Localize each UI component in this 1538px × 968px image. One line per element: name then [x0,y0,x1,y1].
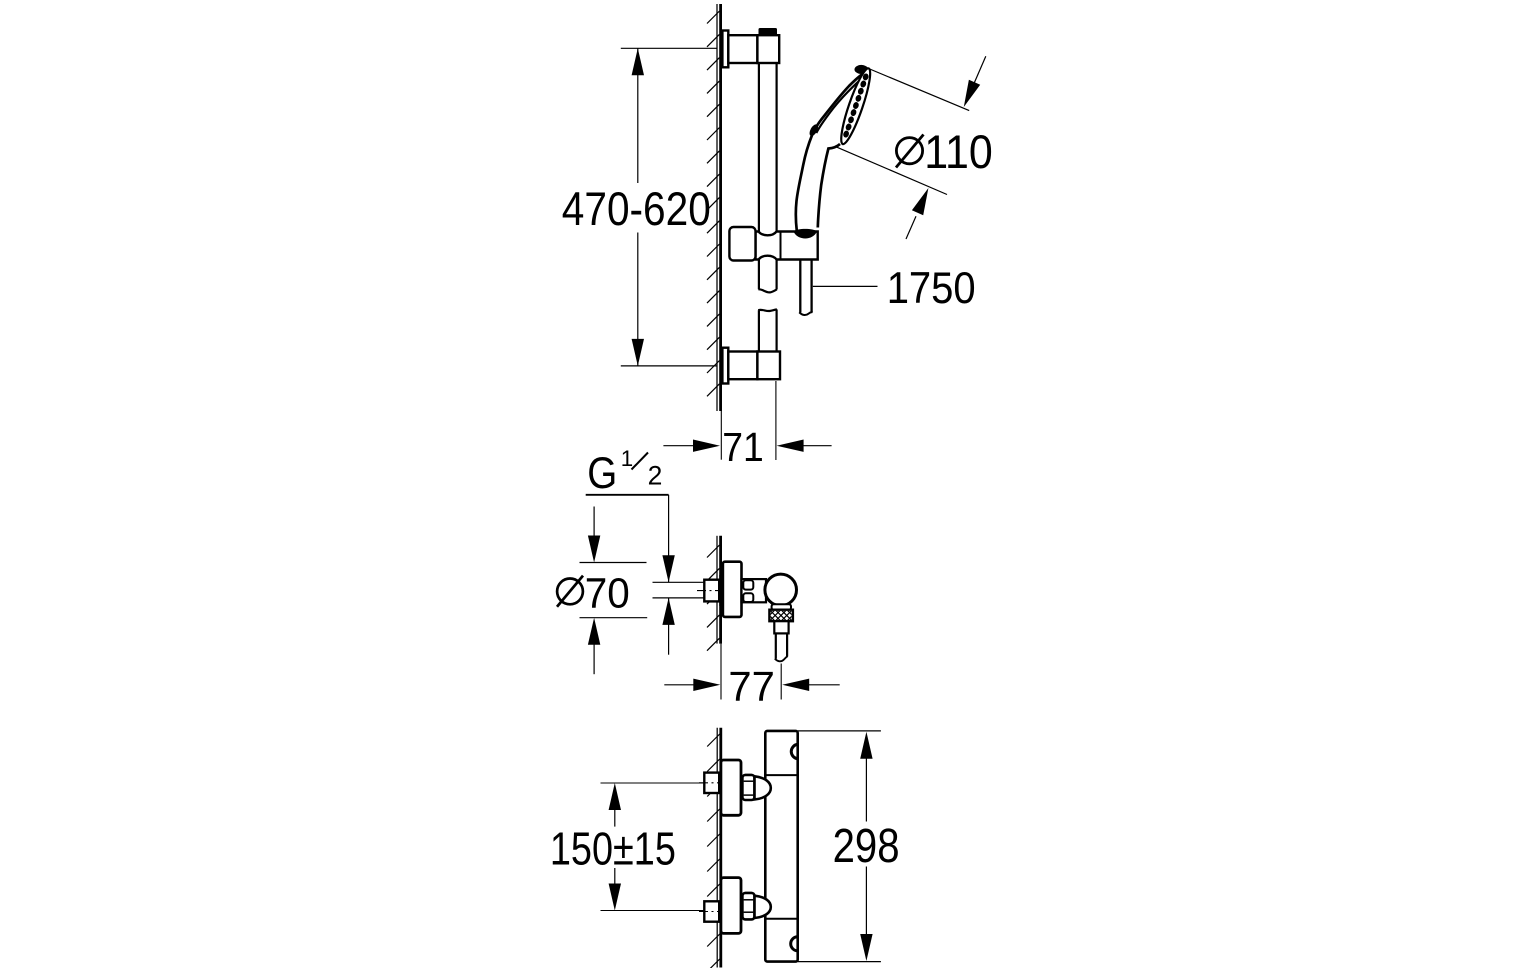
extension line (body bottom) [798,961,881,963]
union nut ridge (lower) [743,593,753,602]
lower union nut line 2 [744,911,754,913]
dimension 71 left arrow line [663,445,699,447]
lower union flange [721,878,741,934]
hand shower back outline and handle left edge [796,70,869,231]
svg-text:2: 2 [648,460,663,490]
dimension line 150 (lower) [614,868,616,884]
dimension 77 left arrow line [664,684,700,686]
lower bracket rail clamp [757,352,780,380]
wall hatching (top section) [707,11,720,396]
ball joint [765,574,797,606]
upper union threaded tail [704,773,719,793]
wall (bottom section, surface line) [719,728,722,968]
arrowhead left (71) [777,440,804,452]
dimension line 470-620 (lower part) [637,233,639,366]
upper bracket rail clamp [757,35,779,63]
hose right edge (outlet) [786,633,788,656]
wall (top section, inner thin line) [716,4,718,411]
shower hose right edge [810,259,812,313]
extension line (wall face, below rail) [720,411,722,460]
rail right edge (lower segment) [775,309,777,351]
volume knob arc (bottom) [791,937,798,951]
svg-text:70: 70 [585,569,630,617]
elbow body [742,579,767,602]
extension line (wall face, below) [720,644,722,700]
upper bracket arm [728,35,757,63]
spray nozzle dots [842,73,869,139]
arrowhead up (470-620) [632,48,644,75]
lower bracket flange [722,348,728,384]
holder body [756,232,818,260]
arrowhead (upper, toward face) [964,80,980,107]
hose left edge (outlet) [775,633,777,658]
svg-text:110: 110 [924,126,993,179]
arrow tail (lower) [906,216,916,239]
svg-text:G: G [587,447,617,498]
label 1750 (hose length) [887,264,976,313]
wall hatching (middle section) [707,545,720,651]
dimension line 298 (lower) [865,867,867,935]
label 470-620 [562,183,711,236]
arrowhead up (298) [860,732,872,759]
leader line for 1750 [813,285,878,287]
wall (middle section, surface line) [719,536,722,644]
arrowhead down (escutcheon) [588,536,600,563]
holder hand knob [729,227,755,261]
label diameter 70 (slashed-circle) [557,569,630,617]
rail left edge (lower segment) [758,310,760,351]
fraction slash [632,453,649,470]
G1/2 underline [586,494,669,496]
hose break line (outlet) [775,656,788,661]
G1/2 leader vertical (upper) [668,495,670,583]
thread extension line (upper) [653,581,704,583]
arrowhead (lower, toward face) [912,188,929,215]
extension line (rail right edge, below) [775,381,777,460]
head top cap curve [855,66,869,73]
label diameter 110 (slashed-circle) [896,126,993,179]
wall (bottom section, inner thin line) [716,728,718,968]
dimension line 150 (upper) [614,810,616,827]
lower inlet dome [755,896,771,918]
extension line at lower bracket centre [621,365,717,367]
arrow line down (escutcheon) [593,507,595,557]
spray face (oblique ellipse) [836,66,875,146]
rail break line (lower) [758,310,777,312]
hose connector [774,621,788,633]
thermostat body [765,731,797,962]
escutcheon [723,562,742,617]
extension line (shower face, lower) [836,147,947,195]
label 1 (superscript) [621,446,633,471]
inner back cover line [816,76,865,134]
upper union nut line 2 [744,794,754,796]
label 2 (subscript) [648,460,663,490]
dimension line 470-620 (upper part) [637,48,639,183]
dimension line 298 (upper) [865,758,867,822]
shower hose left edge [799,259,801,313]
body seam (lower) [765,918,797,920]
svg-text:150±15: 150±15 [550,823,676,875]
ball collar [772,604,791,609]
rail top end cap (black) [759,28,778,35]
extension line (body top) [798,730,881,732]
label 71 [722,424,764,470]
handle-holder shadow (black crescent) [793,229,817,239]
wall (top section, surface line) [719,4,722,411]
extension line (shower face, upper) [869,69,970,111]
temperature knob arc (top) [791,744,797,759]
G1/2 leader vertical (lower) [668,598,670,655]
upper union flange [721,760,741,815]
spray mode button (dark oval on back edge) [808,123,820,137]
label 150 plus/minus 15 [550,823,676,875]
arrowhead down (298) [860,934,872,961]
threaded tail behind wall [704,580,719,602]
dimension 77 right arrow line [803,684,840,686]
lower bracket arm [728,352,757,380]
svg-text:71: 71 [722,424,764,470]
wall (middle section, inner thin line) [716,536,718,644]
upper inlet dome [755,776,771,799]
upper union nut line 1 [744,780,754,782]
arrowhead up (G1/2 thread) [662,598,674,625]
lower union centreline [699,911,725,913]
fitting centreline (dash-dot) [697,590,726,592]
knurl pattern [752,610,822,622]
wall over lower tail [719,897,722,926]
lower union nut [742,893,754,920]
arrowhead right (71) [693,440,720,452]
extension line (hose centre, below) [780,664,782,700]
wall over upper tail [719,768,722,797]
knurled hose nut [769,610,793,622]
extension line at upper bracket centre [621,47,717,49]
arrowhead down (470-620) [632,339,644,366]
rail left edge (upper segment) [758,63,760,289]
label G (thread size) [587,447,617,498]
holder divider line [780,232,782,260]
union nut ridge (upper) [743,580,753,589]
arrow line up (escutcheon) [593,624,595,674]
rail right edge (upper segment) [775,63,777,290]
label 298 [833,820,900,873]
upper union nut [742,775,754,800]
arrow tail (upper) [966,56,986,101]
upper bracket flange [722,31,728,68]
lower union threaded tail [704,901,719,921]
svg-text:470-620: 470-620 [562,183,711,236]
lower union nut line 1 [744,899,754,901]
svg-text:298: 298 [833,820,900,873]
shower hose break line [799,312,812,315]
wall line over tail (surface) [719,575,722,606]
arrowhead down (G1/2 thread) [662,555,674,582]
extension line (lower connection) [601,910,704,912]
extension line (escutcheon bottom) [580,617,648,619]
dimension 71 right arrow line [803,445,832,447]
arrowhead up (150) [609,783,621,810]
arrowhead up (escutcheon) [588,618,600,645]
extension line (upper connection) [601,782,704,784]
thread extension line (lower) [653,597,704,599]
extension line (escutcheon top) [580,562,647,564]
rail break line (upper) [758,289,777,292]
arrowhead right (77) [693,679,720,691]
svg-text:1: 1 [621,446,633,471]
hand shower handle right edge [818,144,840,228]
label 77 [728,663,775,710]
arrowhead down (150) [609,884,621,911]
svg-text:77: 77 [728,663,775,710]
upper union centreline [699,782,725,784]
wall hatching (bottom section) [707,734,720,968]
body seam (upper) [765,774,797,776]
svg-text:1750: 1750 [887,264,976,313]
arrowhead left (77) [782,679,809,691]
